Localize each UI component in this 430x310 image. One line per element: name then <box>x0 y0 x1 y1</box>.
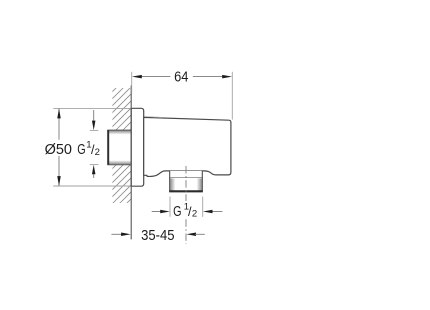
svg-text:2: 2 <box>192 209 197 220</box>
outlet thread right edge <box>201 178 203 192</box>
dim 64 line right segment <box>193 76 223 78</box>
extension line Ø50 bottom <box>53 185 131 187</box>
svg-text:64: 64 <box>174 70 188 86</box>
svg-text:G: G <box>173 204 181 220</box>
extension line Ø50 top <box>53 107 131 109</box>
outlet G1/2 right arrowhead (points left) <box>203 210 213 214</box>
inlet pipe thread shading top <box>108 131 131 135</box>
inlet pipe top edge <box>107 129 131 131</box>
svg-text:2: 2 <box>95 147 100 158</box>
outlet collar <box>170 171 203 178</box>
wall face line <box>130 86 132 240</box>
outlet collar/thread boundary <box>169 177 203 179</box>
body (spout housing) <box>144 117 231 176</box>
outlet G1/2 left arrowhead (points right) <box>160 210 170 214</box>
inlet G1/2 upper arrowhead (points down) <box>92 121 96 131</box>
outlet G1/2 right extension line <box>202 197 204 217</box>
outlet G1/2 dim line left <box>152 211 162 213</box>
outlet G1/2 left extension line <box>169 197 171 217</box>
inlet G1/2 dim line lower <box>93 174 95 178</box>
inlet pipe left edge (thick) <box>107 130 109 165</box>
flange (escutcheon) <box>131 108 144 186</box>
outlet G1/2 dim line right <box>212 211 223 213</box>
dim Ø50 line upper segment <box>58 109 60 140</box>
dim 35-45 left arrowhead (points right at wall) <box>121 233 131 237</box>
outlet centerline upper <box>185 166 187 201</box>
inlet pipe thread shading bottom <box>108 160 131 164</box>
outlet collar right edge <box>201 171 203 178</box>
inlet pipe bottom edge <box>107 164 131 166</box>
inlet G1/2 dim line upper <box>93 110 95 121</box>
inlet pipe body <box>107 130 131 165</box>
dim 35-45 right arrowhead (points left at centerline) <box>186 233 196 237</box>
dim 35-45 tail line left <box>111 233 122 235</box>
dim 64 right extension line <box>231 72 233 120</box>
dim 64 left arrowhead <box>132 75 142 79</box>
inlet G1/2 extension tick top <box>90 129 99 131</box>
dim Ø50 top arrowhead <box>57 109 61 119</box>
body fillet highlight line <box>145 116 163 117</box>
outlet collar left edge <box>169 171 171 178</box>
outlet thread shading left <box>170 178 175 191</box>
dim 64 right arrowhead <box>222 75 232 79</box>
inlet G1/2 lower arrowhead (points up) <box>92 165 96 175</box>
dim 35-45 tail line right <box>195 233 205 235</box>
svg-text:35-45: 35-45 <box>141 228 174 244</box>
dim 64 left extension line <box>131 72 133 94</box>
outlet thread left edge <box>169 178 171 192</box>
inlet G1/2 extension tick bottom <box>90 164 99 166</box>
svg-text:G: G <box>77 142 85 158</box>
wall hatching <box>0 84 246 212</box>
svg-text:Ø50: Ø50 <box>45 142 72 158</box>
outlet centerline lower <box>185 219 187 244</box>
outlet thread bottom edge (thick) <box>169 190 203 192</box>
outlet thread section <box>170 178 203 192</box>
outlet thread shading right <box>197 178 202 191</box>
dim 64 line left segment <box>141 76 171 78</box>
dim Ø50 line lower segment <box>58 156 60 186</box>
dim Ø50 bottom arrowhead <box>57 176 61 186</box>
